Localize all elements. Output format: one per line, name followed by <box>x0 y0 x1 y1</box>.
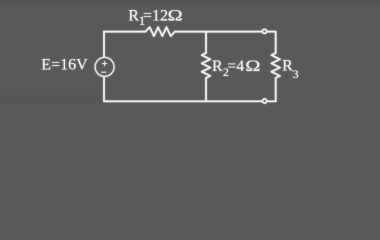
svg-text:Ω: Ω <box>168 7 183 24</box>
wire left: bottom corner up to source <box>103 77 105 101</box>
top dark band <box>0 0 380 5</box>
wire bottom: node to left corner <box>104 100 262 102</box>
resistor R1 <box>146 27 175 36</box>
wire middle branch top <box>205 32 207 53</box>
wire right: R3 to bottom corner <box>275 78 277 101</box>
wire top: R1 to node circle <box>175 31 262 33</box>
svg-text:Ω: Ω <box>245 57 260 74</box>
node terminal bottom (open circle) <box>263 99 267 103</box>
source plus sign <box>102 61 106 65</box>
svg-text:=12: =12 <box>143 8 168 25</box>
faint streak left of bottom wire <box>0 95 103 103</box>
resistor R3 <box>271 53 280 78</box>
svg-text:E=16V: E=16V <box>41 57 88 74</box>
wire top-right: node to corner and down <box>268 32 276 53</box>
node terminal top (open circle) <box>262 29 266 33</box>
resistor R2 <box>202 53 211 78</box>
svg-text:R: R <box>282 58 293 75</box>
svg-text:=4: =4 <box>227 58 244 75</box>
wire middle branch bottom <box>205 78 207 101</box>
wire bottom: corner to node circle <box>268 100 276 102</box>
wire left: source up to top corner <box>103 32 105 57</box>
wire top: left corner to R1 <box>104 31 146 33</box>
svg-text:R: R <box>128 8 139 25</box>
svg-text:R: R <box>212 58 223 75</box>
svg-text:3: 3 <box>293 67 299 81</box>
source minus sign <box>102 71 107 73</box>
voltage source E circle <box>95 57 114 76</box>
